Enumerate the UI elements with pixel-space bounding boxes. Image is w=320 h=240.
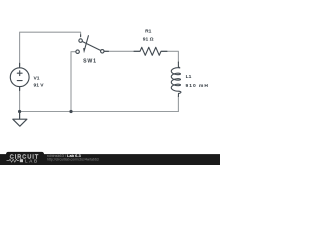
wire SW1 right to R1 [104,50,139,52]
SW1 lever [82,42,100,51]
wire L1 bottom to bottom rail [177,96,179,111]
V1 plus mark [17,71,22,76]
logo chip icon [20,159,23,162]
SW1 actuator arrowhead [83,48,86,54]
wire SW1 lower throw down to bottom rail [71,52,76,112]
SW1 common terminal [101,50,105,54]
SW1 throw terminal 2 [76,50,80,54]
wire bottom rail [20,111,179,113]
SW1 right lead [104,50,108,52]
resistor R1 [134,47,167,55]
svg-text:SW1: SW1 [83,58,97,64]
V1 minus mark [17,80,22,82]
svg-text:R1: R1 [145,29,152,35]
SW1 actuator line [85,36,88,48]
voltage source V1 [10,63,29,90]
footer bar [0,154,220,165]
junction node at V1/bottom rail [18,110,21,113]
junction node at SW1 branch/bottom rail [69,110,72,113]
V1 bottom lead (- pin) [19,87,21,91]
svg-text:910 mH: 910 mH [186,83,209,89]
footer logo box [6,152,44,165]
ground [13,113,27,127]
SW1 top lead [80,35,82,37]
inductor L1 [171,62,181,97]
svg-text:91 Ω: 91 Ω [143,37,154,43]
svg-text:http://circuitlab.com/c6cr4w/l: http://circuitlab.com/c6cr4w/lab63 [47,157,99,161]
wire top from V1 to SW1 [20,32,81,66]
ground stem [19,113,21,120]
svg-text:V1: V1 [34,76,40,82]
wire R1 to L1 [161,51,178,62]
ground triangle [13,119,27,126]
svg-text:L1: L1 [186,74,192,80]
V1 body circle [10,68,29,87]
switch SW1 [76,35,109,54]
wire V1 bottom to junction [19,87,21,119]
logo resistor zigzag [7,159,20,162]
svg-text:LAB: LAB [25,159,39,164]
svg-text:91 V: 91 V [34,82,45,88]
SW1 throw terminal 1 [79,39,83,43]
V1 top lead (+ pin) [19,63,21,68]
